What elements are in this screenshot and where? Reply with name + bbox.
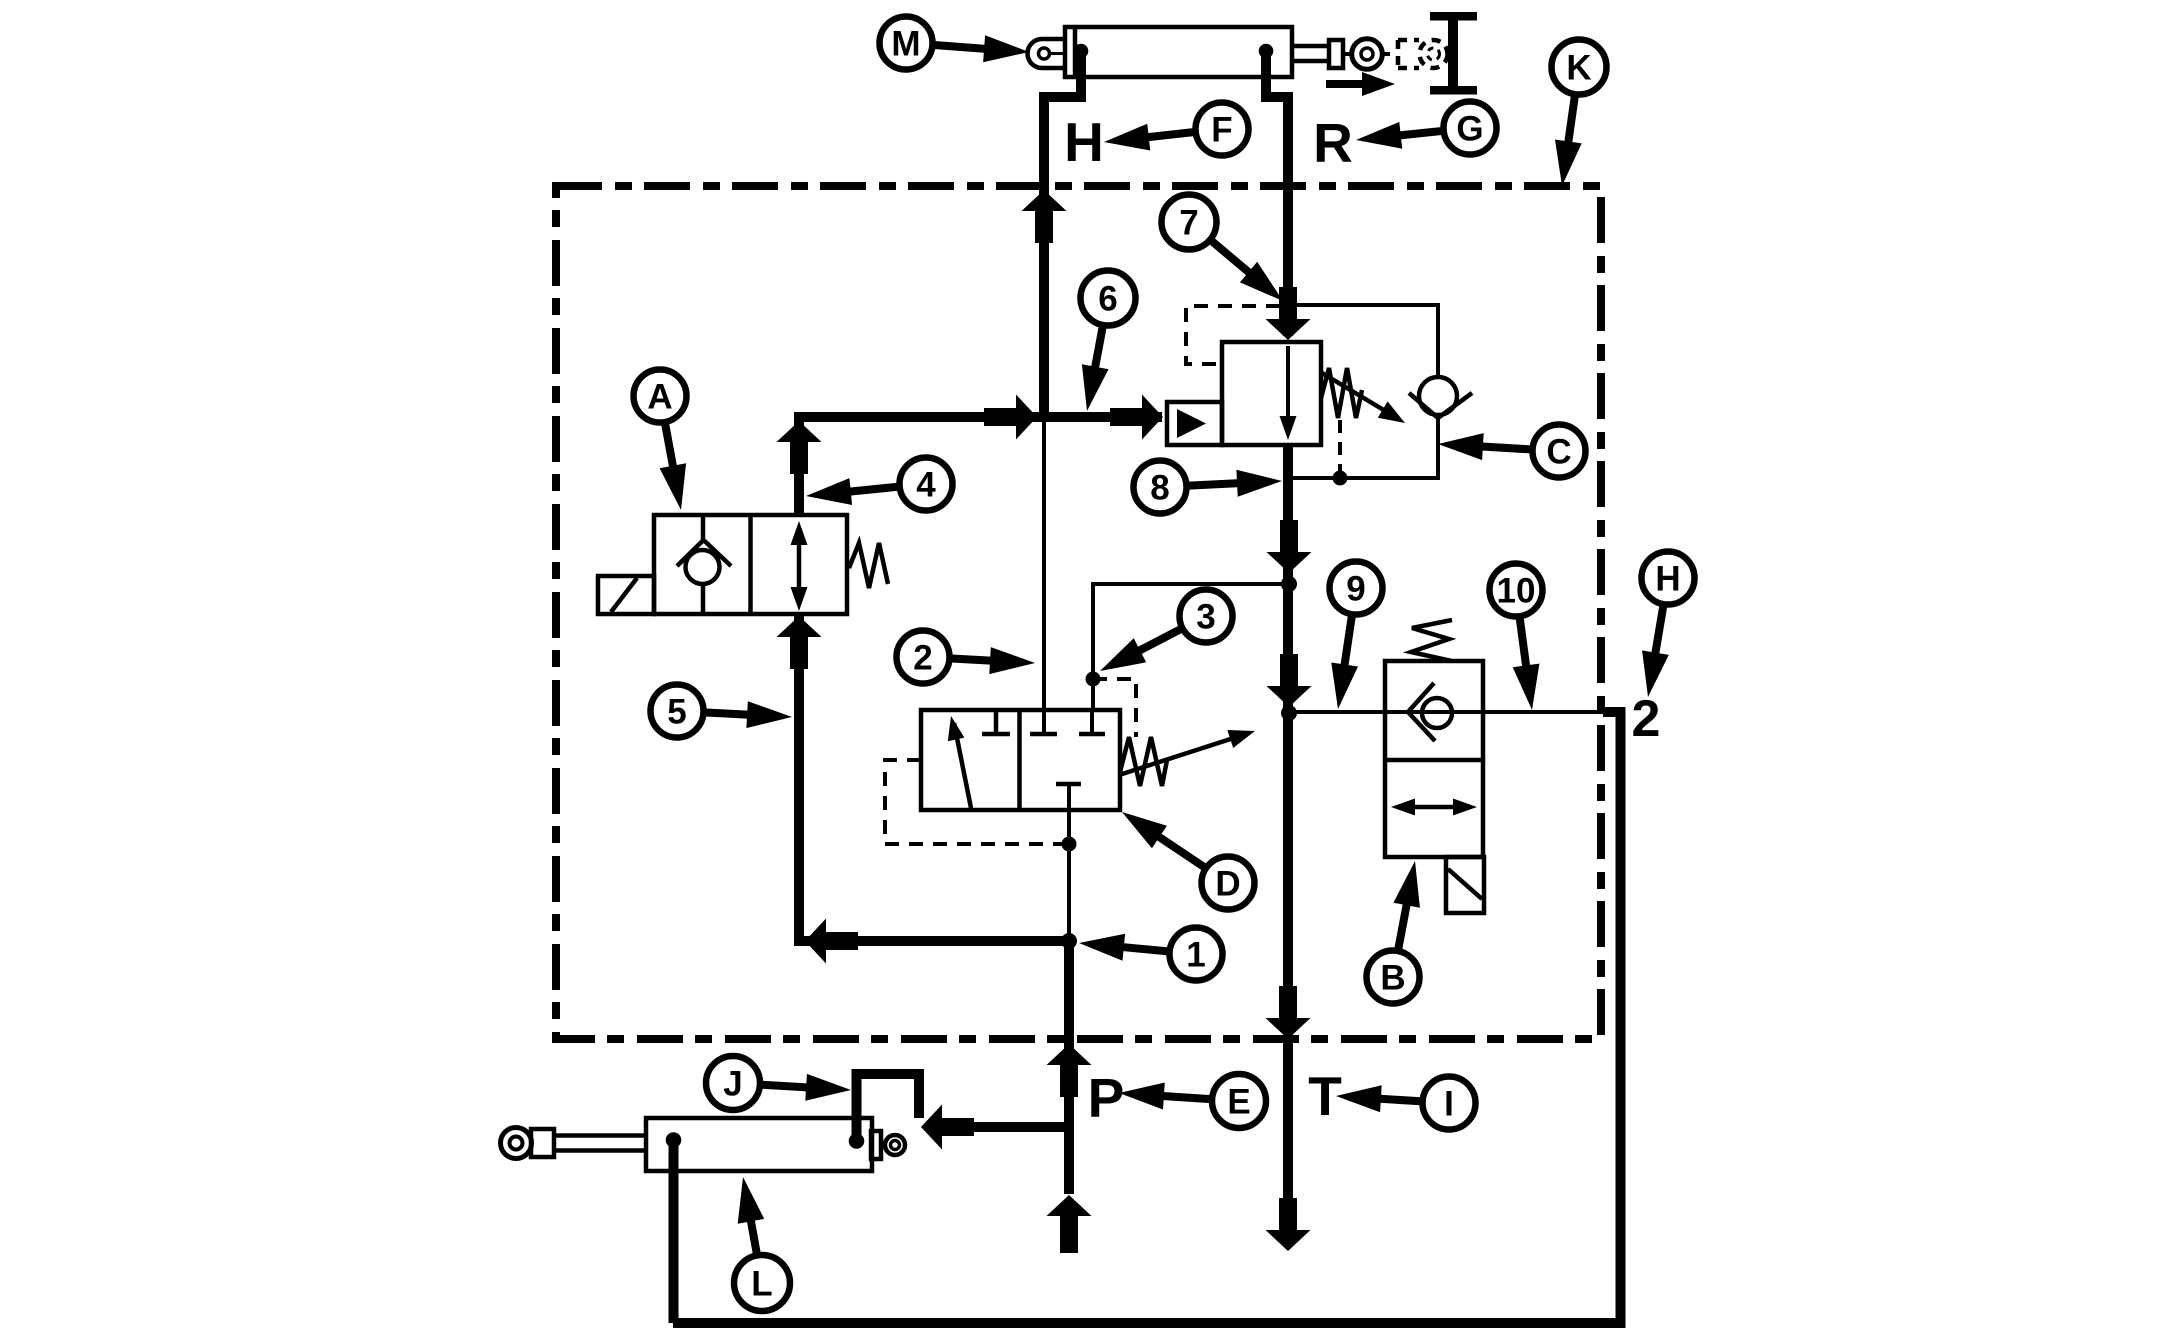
svg-text:4: 4 — [916, 466, 936, 505]
wire H line (cylinder head end down to junction) — [1044, 51, 1081, 417]
junction dot T drop upper — [1281, 576, 1297, 592]
callout 6 — [1081, 271, 1136, 412]
flow arrow up on line 5 — [777, 616, 822, 669]
wire line 3 (T drop to valve D) — [1093, 584, 1289, 710]
callout F — [1104, 103, 1249, 156]
callout H right — [1642, 552, 1695, 698]
cylinder M — [1028, 27, 1391, 77]
junction dot at valve D pilot — [1062, 837, 1077, 852]
callout 1 — [1079, 928, 1223, 981]
junction dot on line 3 — [1086, 672, 1101, 687]
svg-text:C: C — [1546, 433, 1571, 472]
flow arrow down on T line at boundary — [1266, 986, 1311, 1039]
svg-text:6: 6 — [1098, 280, 1117, 319]
valve A (solenoid operated check valve) — [598, 515, 888, 614]
port label R — [1313, 112, 1353, 174]
svg-text:E: E — [1227, 1083, 1250, 1122]
callout 3 — [1100, 590, 1233, 672]
flow arrow up on line 4 — [777, 421, 822, 474]
callout K — [1552, 40, 1607, 187]
cylinder M port dots — [1074, 44, 1274, 59]
junction dot on bypass pilot — [1333, 471, 1348, 486]
callout 2 — [897, 631, 1036, 684]
wire return line 2 elbow and bottom run — [673, 712, 1621, 1323]
callout J — [706, 1056, 851, 1110]
svg-text:J: J — [723, 1065, 742, 1104]
callout B — [1367, 861, 1420, 1004]
svg-text:9: 9 — [1346, 570, 1365, 609]
callout M — [880, 17, 1030, 70]
wire pilot dashed from bypass to valve C spring — [1338, 420, 1342, 478]
enclosure K (valve block boundary, dash-dot) — [556, 186, 1601, 1039]
wire J fitting horizontal — [940, 1122, 1069, 1132]
valve C relief body — [1222, 342, 1405, 445]
flow arrow up on H line at boundary — [1022, 190, 1067, 243]
svg-text:D: D — [1215, 865, 1240, 904]
port label H — [1064, 111, 1104, 173]
svg-text:M: M — [891, 25, 920, 64]
valve D pilot dashed rectangle — [885, 760, 1062, 844]
flow arrow down on T drop above node — [1267, 520, 1312, 573]
callout D — [1122, 812, 1255, 910]
callout G — [1356, 102, 1497, 155]
callout A — [634, 370, 687, 511]
svg-text:A: A — [647, 378, 672, 417]
svg-text:2: 2 — [913, 639, 932, 678]
callout C — [1438, 425, 1586, 478]
pump supply arrow at bottom of P riser — [1047, 1195, 1092, 1253]
flow arrow up on P riser at boundary — [1047, 1044, 1092, 1097]
valve B (solenoid check valve) — [1385, 620, 1484, 913]
flow arrow down on T drop above line 9 — [1267, 654, 1312, 707]
port label P — [1088, 1067, 1125, 1129]
extend direction arrow — [1326, 72, 1395, 96]
svg-text:H: H — [1064, 111, 1104, 173]
svg-text:F: F — [1211, 111, 1232, 150]
wire cylinder L head-end line down to bottom run — [669, 1141, 679, 1323]
wire line 9-10 (through check valve B) — [1289, 710, 1607, 714]
net label 2 — [1632, 690, 1661, 748]
check valve in bypass of valve C — [1409, 377, 1472, 418]
tank return arrow at bottom of T line — [1266, 1198, 1311, 1251]
junction dot node 1 — [1061, 933, 1077, 949]
valve D flow control body — [921, 710, 1255, 810]
svg-text:3: 3 — [1196, 598, 1215, 637]
wire line 2 pilot (junction down to valve D) — [1042, 417, 1046, 710]
wire node 1 horizontal — [794, 936, 1069, 946]
svg-text:B: B — [1380, 959, 1405, 998]
wire line 4 (valve A up to corner) — [794, 412, 804, 515]
callout I — [1336, 1077, 1476, 1130]
svg-text:10: 10 — [1497, 572, 1536, 611]
cylinder L — [501, 1118, 906, 1171]
callout 4 — [806, 458, 953, 511]
wire line 5 (valve A down to bottom corner) — [794, 614, 804, 946]
valve D bottom line to node 1 — [1067, 810, 1071, 941]
callout 8 — [1134, 461, 1283, 514]
flow arrow left at node 1 corner — [805, 919, 858, 964]
flow arrow left into J fitting — [921, 1105, 974, 1150]
svg-text:5: 5 — [667, 693, 686, 732]
callout 9 — [1330, 562, 1383, 710]
flow arrow right into junction — [984, 395, 1037, 440]
svg-text:H: H — [1655, 560, 1680, 599]
wire R line (cylinder rod end down to relief valve C) — [1266, 51, 1288, 336]
svg-text:1: 1 — [1186, 936, 1205, 975]
valve C pilot dashed line — [1186, 306, 1280, 364]
callout 10 — [1490, 564, 1543, 711]
flow arrow right into valve C pilot — [1110, 395, 1163, 440]
callout 7 — [1162, 195, 1284, 302]
callout 5 — [651, 685, 793, 738]
svg-text:P: P — [1088, 1067, 1125, 1129]
wire bypass loop lower — [1288, 416, 1438, 478]
wire T drop from valve C to tank — [1283, 445, 1293, 1199]
wire J fitting to P riser — [857, 1074, 920, 1141]
wire P riser — [1064, 941, 1074, 1194]
valve D right pilot dashed — [1093, 679, 1136, 737]
svg-text:R: R — [1313, 112, 1353, 174]
wire line 6 (junction to sequence valve pilot) — [794, 412, 1162, 422]
junction dot T drop at line 9 — [1281, 705, 1297, 721]
svg-text:G: G — [1456, 110, 1483, 149]
svg-text:7: 7 — [1179, 204, 1198, 243]
callout L — [734, 1177, 790, 1311]
port label T — [1308, 1065, 1342, 1127]
svg-text:2: 2 — [1632, 690, 1661, 748]
valve C pilot box — [1167, 402, 1222, 445]
svg-text:L: L — [751, 1265, 772, 1304]
wire bypass loop around valve C upper — [1288, 305, 1438, 378]
cylinder M rod eye extended (dashed) — [1398, 40, 1448, 68]
svg-text:K: K — [1566, 49, 1591, 88]
flow arrow down into valve C — [1266, 287, 1311, 340]
cylinder L port dots — [666, 1132, 865, 1149]
callout E — [1119, 1074, 1266, 1128]
load anchor I-beam — [1430, 12, 1477, 95]
svg-text:I: I — [1444, 1085, 1454, 1124]
svg-text:8: 8 — [1150, 469, 1169, 508]
